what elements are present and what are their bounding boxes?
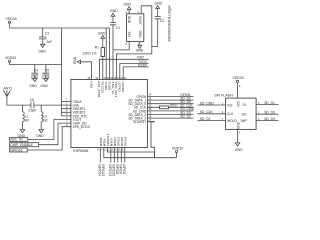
svg-text:VDD33: VDD33: [6, 17, 17, 21]
svg-text:C4: C4: [34, 69, 38, 73]
IC U1 ESP8266 box: [71, 80, 147, 154]
capacitor C6 3.6pF (series): [28, 98, 36, 112]
net SD_D1 wire: [155, 99, 194, 101]
power flag VDD33 near pin 17: [172, 147, 183, 158]
wire left rail down to chip left power pins: [61, 28, 63, 116]
svg-text:VDDPST: VDDPST: [133, 120, 146, 124]
wire crystal XIN pin 4 to XTAL_IN net: [113, 41, 129, 50]
svg-text:C1: C1: [116, 26, 120, 30]
svg-text:12KΩ 1%: 12KΩ 1%: [82, 51, 96, 55]
flash pin 7 /HOLD with net SD_D2: [198, 117, 238, 123]
svg-text:NC: NC: [25, 118, 30, 122]
svg-text:3.6pF: 3.6pF: [28, 108, 36, 112]
svg-text:GND: GND: [89, 81, 93, 89]
svg-text:GPIO0: GPIO0: [119, 164, 123, 174]
svg-text:CHIP_ENABLE: CHIP_ENABLE: [10, 143, 34, 147]
antenna ANT1: [3, 86, 12, 105]
bottom net labels rotated: [98, 164, 127, 176]
svg-text:200Ω: 200Ω: [170, 104, 179, 108]
wire C1 to XTAL_IN pin 28: [112, 25, 114, 80]
svg-text:C3: C3: [45, 32, 49, 36]
svg-text:ADC_IN: ADC_IN: [10, 138, 23, 142]
right pin names: [128, 95, 147, 124]
svg-text:GND: GND: [235, 148, 243, 152]
svg-text:ESP8266: ESP8266: [73, 149, 88, 153]
net flag CHIP_ENABLE: [10, 123, 65, 147]
svg-text:/CS: /CS: [227, 103, 232, 107]
wire antenna line to LNA: [7, 104, 65, 106]
svg-text:U0RXD: U0RXD: [121, 81, 125, 92]
capacitor C3: [39, 28, 52, 44]
net SD_D2 wire: [155, 117, 194, 119]
resistor R2 200 Ohm on SD_CLK: [155, 104, 194, 109]
net flag ADC_IN: [10, 120, 65, 142]
ground under crystal: [136, 45, 144, 52]
wire VDD3P3 feeds: [62, 109, 65, 116]
svg-text:VDD33: VDD33: [5, 56, 16, 60]
svg-text:C2: C2: [160, 19, 164, 23]
svg-text:/WP: /WP: [241, 119, 247, 123]
svg-text:GPIO12: GPIO12: [101, 164, 105, 176]
bottom pin names rotated: [99, 134, 128, 147]
svg-text:GND: GND: [40, 84, 48, 88]
net SD_D3 wire: [155, 114, 194, 116]
net RXD0 wire: [123, 67, 149, 80]
inductor L1 NC: [23, 105, 30, 129]
net flag GPIO16: [10, 127, 65, 153]
svg-text:CLK: CLK: [227, 112, 234, 116]
svg-text:VCC: VCC: [236, 100, 240, 107]
ground under L1: [18, 130, 26, 139]
wire junction down to VDD33 flag: [155, 152, 177, 158]
bottom pin stubs: [100, 148, 125, 163]
svg-text:SD_D2: SD_D2: [200, 117, 211, 121]
net SD_D0 wire: [155, 103, 194, 105]
ground flag above crystal pin 2: [123, 3, 131, 14]
wire VDD33 top rail: [10, 27, 110, 29]
svg-text:GND: GND: [127, 16, 131, 24]
power flag VDD33 above flash: [233, 76, 244, 98]
svg-text:GND: GND: [73, 56, 77, 64]
svg-text:GPIO4: GPIO4: [122, 164, 126, 174]
svg-text:SPI FLASH: SPI FLASH: [214, 93, 233, 97]
svg-text:VDD33: VDD33: [233, 76, 244, 80]
svg-text:GND: GND: [236, 121, 240, 129]
ground flag above R1: [98, 32, 106, 48]
flash pin 1 /CS with net SD_CMD: [198, 101, 233, 107]
flash pin 4 GND: [236, 121, 241, 143]
bottom pin numbers: [97, 148, 124, 151]
crystal X1 box: [125, 11, 144, 46]
svg-text:GND: GND: [123, 3, 131, 7]
svg-text:C6: C6: [30, 98, 34, 102]
svg-text:R1: R1: [95, 46, 99, 50]
flash pin 5 DI with net SD_D1: [243, 101, 279, 107]
right pin numbers: [149, 94, 152, 122]
svg-text:GND: GND: [38, 50, 46, 54]
svg-text:GPIO4: GPIO4: [123, 137, 127, 147]
svg-text:SD_CLK: SD_CLK: [200, 110, 214, 114]
left pin numbers: [66, 99, 68, 127]
svg-text:NC: NC: [43, 118, 48, 122]
ground flag above C1: [110, 9, 118, 22]
svg-text:VDD33: VDD33: [172, 147, 183, 151]
IC U2 SPI FLASH box: [214, 93, 256, 129]
svg-text:GPIO15: GPIO15: [112, 164, 116, 176]
ground under C5: [40, 79, 48, 89]
wire crystal XOUT pin 1 top route: [116, 6, 151, 80]
svg-text:GND: GND: [138, 31, 142, 39]
wire VDDPST pin 17 to VDD33: [151, 122, 155, 158]
flash pin 6 CLK with net SD_CLK: [198, 110, 235, 116]
svg-text:C5: C5: [45, 69, 49, 73]
capacitor C2: [155, 17, 165, 23]
svg-text:ANT1: ANT1: [3, 86, 12, 90]
svg-text:0.1μF: 0.1μF: [42, 76, 50, 80]
ground under C4: [29, 79, 37, 89]
net SD_CMD wire: [155, 110, 194, 112]
wire VDDA feed: [62, 101, 65, 103]
flash pin 2 DO with net SD_D0: [242, 111, 279, 117]
wire C2 down to XOUT net: [152, 19, 158, 47]
svg-text:GND: GND: [155, 1, 163, 5]
wire rail drop to VDDD pin 29: [109, 28, 111, 80]
svg-text:1uF: 1uF: [47, 40, 53, 44]
svg-text:RXD0: RXD0: [138, 64, 147, 68]
net TXD0 wire: [120, 64, 149, 80]
left pin stubs: [65, 102, 71, 127]
svg-text:XPD_DCDC: XPD_DCDC: [73, 125, 91, 129]
wire rail drop to VDDA pin 30: [105, 28, 107, 80]
resistor R1 12KOhm 1%: [82, 46, 104, 80]
ground under L2: [36, 130, 44, 139]
svg-text:XIN: XIN: [127, 32, 131, 38]
inductor L2 NC: [41, 105, 48, 129]
net GPIO5 wire: [155, 96, 194, 98]
power flag VDD33 mid-left: [5, 56, 62, 65]
top pin numbers: [88, 77, 128, 80]
svg-text:DI: DI: [243, 103, 246, 107]
ground under C3: [38, 44, 46, 53]
svg-text:SD_D3: SD_D3: [264, 117, 275, 121]
net RST wire: [99, 59, 148, 79]
svg-text:SD_D2: SD_D2: [180, 114, 191, 118]
svg-text:GPIO2: GPIO2: [115, 164, 119, 174]
left pin names: [73, 100, 91, 129]
svg-text:GND: GND: [136, 49, 144, 53]
svg-text:SD_D1: SD_D1: [264, 101, 275, 105]
svg-text:SD_D0: SD_D0: [264, 111, 275, 115]
svg-text:XOUT: XOUT: [138, 16, 142, 25]
svg-text:GPIO16: GPIO16: [10, 148, 22, 152]
capacitor C4 10uF: [31, 65, 38, 80]
svg-text:GPIO14: GPIO14: [98, 164, 102, 176]
svg-text:GND: GND: [98, 32, 106, 36]
wire VDDPST pin 11 to VDD33: [107, 148, 154, 153]
ground flag above C2: [155, 1, 163, 16]
svg-text:GND: GND: [29, 84, 37, 88]
svg-text:40M/26M/24MHz±10ppm: 40M/26M/24MHz±10ppm: [168, 5, 172, 42]
svg-text:DO: DO: [242, 113, 247, 117]
flash pin 3 /WP with net SD_D3: [241, 117, 279, 123]
wire crystal pin 3 to ground: [139, 41, 141, 45]
right pin stubs: [147, 97, 154, 122]
power flag VDD33 top-left: [6, 17, 17, 28]
ground flag left of chip (pin 33 net): [73, 56, 91, 79]
capacitor C1: [110, 23, 120, 31]
svg-text:GND: GND: [110, 9, 118, 13]
svg-text:RST: RST: [137, 56, 144, 60]
ground under flash: [235, 143, 243, 152]
svg-text:GND: GND: [36, 134, 44, 138]
svg-text:SD_CMD: SD_CMD: [200, 101, 215, 105]
svg-text:GPIO13: GPIO13: [108, 164, 112, 176]
capacitor C5 0.1uF: [42, 65, 50, 80]
wire MTDI pin 10 lower run: [104, 148, 155, 158]
